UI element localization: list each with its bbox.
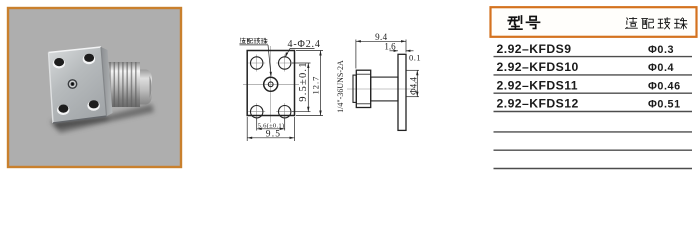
header 型号 <box>508 16 539 29</box>
svg-text:Φ0.4: Φ0.4 <box>648 62 674 74</box>
flange bevels <box>49 47 107 123</box>
svg-text:9.5±0.1: 9.5±0.1 <box>298 61 309 101</box>
dim 5.6(±0.1) (bottom) <box>257 119 285 131</box>
holes <box>53 54 100 115</box>
connector photo <box>49 47 155 133</box>
dim 12.7 (far right, vertical) <box>296 51 323 116</box>
coupling nut <box>356 70 370 107</box>
svg-text:Φ0.3: Φ0.3 <box>648 44 674 56</box>
svg-text:1/4"-36UNS-2A: 1/4"-36UNS-2A <box>336 60 345 113</box>
barrel (threaded) <box>106 62 140 107</box>
header 适配玻珠 <box>626 18 687 29</box>
centerline <box>347 88 412 90</box>
dim 9.4 (top) <box>356 32 406 69</box>
flange outline <box>247 51 294 116</box>
centerlines <box>243 46 299 123</box>
center bead <box>68 79 78 89</box>
body cylinder <box>371 77 398 101</box>
svg-text:Φ4.4: Φ4.4 <box>408 77 418 95</box>
svg-text:2.92–KFDS12: 2.92–KFDS12 <box>497 97 579 111</box>
svg-text:5.6(±0.1): 5.6(±0.1) <box>258 122 285 129</box>
svg-text:Φ0.46: Φ0.46 <box>648 80 681 92</box>
flange front face <box>49 47 107 123</box>
header box <box>491 7 697 37</box>
label 4-Phi2.4 + leader <box>285 39 321 58</box>
svg-text:2.92–KFDS9: 2.92–KFDS9 <box>497 42 572 56</box>
center bead circles <box>264 77 278 91</box>
svg-text:Φ0.51: Φ0.51 <box>648 99 681 111</box>
svg-text:0.1: 0.1 <box>409 53 421 63</box>
dim 9.5 (bottom) <box>247 117 294 141</box>
barrel end cap <box>140 70 152 105</box>
mounting holes <box>251 57 263 69</box>
row separators <box>494 57 693 169</box>
dim Phi4.4 (right, vertical) <box>406 70 419 96</box>
flange plate <box>398 54 406 130</box>
svg-text:2.92–KFDS11: 2.92–KFDS11 <box>497 78 579 92</box>
front rim <box>353 75 356 102</box>
svg-text:1.6: 1.6 <box>384 41 396 51</box>
svg-text:9.5: 9.5 <box>266 130 281 140</box>
svg-text:12.7: 12.7 <box>310 76 320 95</box>
dim 1.6 <box>384 41 413 52</box>
svg-text:2.92–KFDS10: 2.92–KFDS10 <box>497 60 579 74</box>
frame border <box>8 8 181 167</box>
flange side face <box>101 47 113 116</box>
dim 9.5±0.1 (right, vertical) <box>292 61 311 111</box>
shadow under flange <box>50 104 154 133</box>
label 适配玻珠 (small) + leader <box>240 38 272 77</box>
row texts <box>497 42 681 111</box>
